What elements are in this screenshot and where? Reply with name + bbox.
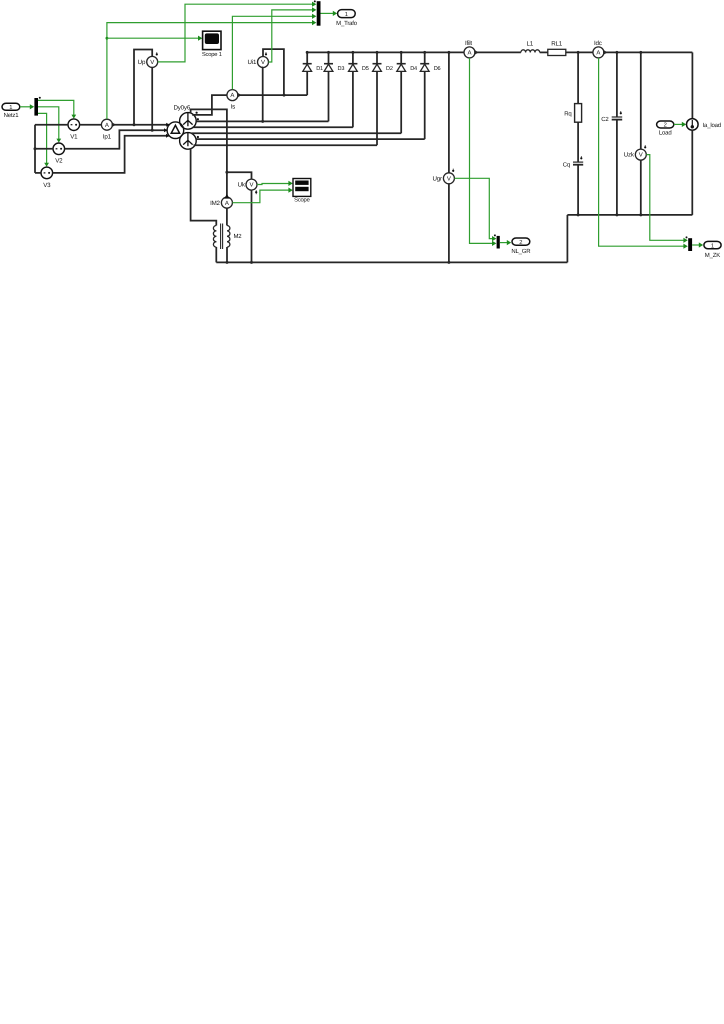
junction Up- on phase 2 [151, 129, 154, 132]
polarity dot secondary d [197, 136, 199, 138]
junction Ugr tap on bus [447, 51, 450, 54]
wire Idc to load corner [604, 51, 693, 53]
svg-text:RL1: RL1 [551, 41, 563, 48]
svg-text:1: 1 [345, 12, 348, 18]
wire Ui1- to secondary line b [262, 68, 264, 122]
junction Uk+ tap [225, 171, 228, 174]
arrowhead into Scope 1 [198, 36, 202, 41]
voltage source V3 [41, 167, 53, 189]
junction Ugr on neutral rail [447, 261, 450, 264]
svg-text:Ui1: Ui1 [248, 59, 257, 66]
diode D1 [303, 52, 323, 95]
arrowhead into V3 [44, 163, 49, 167]
svg-text:Ia_load: Ia_load [703, 122, 721, 129]
junction neutral-V2 [34, 147, 37, 150]
wire V3 left to neutral [35, 172, 41, 174]
wire bus to Uzk [640, 52, 642, 149]
signal wire mux to M_ZK [692, 244, 700, 246]
wire M2 right winding to rail [226, 247, 228, 262]
svg-text:Ugr: Ugr [433, 175, 443, 182]
svg-text:V: V [249, 182, 253, 189]
arrow at Ifilt output [474, 50, 478, 55]
arrow at Ip1 output [112, 122, 116, 127]
wire Rq to Cq [577, 122, 579, 162]
voltmeter Ui1 [248, 57, 269, 68]
transformer M2 right winding [227, 226, 242, 248]
arrowhead into V1 [71, 115, 76, 119]
wire RL1 to Idc [566, 51, 593, 53]
svg-text:Rq: Rq [564, 110, 571, 117]
polarity mark Uzk [644, 145, 646, 148]
svg-text:Uk: Uk [238, 182, 246, 189]
svg-text:Dy0y6: Dy0y6 [174, 105, 191, 112]
transformer M2 core [221, 224, 223, 250]
svg-text:Up: Up [138, 59, 146, 66]
svg-text:Scope: Scope [294, 197, 309, 204]
wire V1 to Ip1 (phase 1) [80, 124, 102, 126]
svg-text:Uzk: Uzk [624, 152, 635, 159]
wire V3 to delta (phase 3) [53, 136, 170, 173]
wire secondary line c1 to D4 [192, 132, 402, 134]
junction Cq on rail [577, 213, 580, 216]
wire bus to Rq [577, 52, 579, 103]
svg-text:D5: D5 [362, 66, 369, 72]
ammeter Ifilt [464, 40, 475, 58]
arrowhead Up into mux [312, 2, 316, 7]
junction C2 tap on bus [615, 51, 618, 54]
svg-text:V: V [639, 152, 643, 159]
voltmeter Up [138, 56, 158, 67]
wire neutral rail [216, 261, 567, 263]
mux bar M_Trafo [314, 0, 321, 25]
junction Uk- on rail [250, 261, 253, 264]
junction Uzk tap on bus [639, 51, 642, 54]
capacitor Cq [563, 161, 583, 168]
junction Ip1 signal to Scope 1 [106, 37, 109, 40]
voltmeter Uzk [624, 149, 647, 160]
svg-text:D3: D3 [338, 66, 345, 72]
arrowhead into M_ZK [699, 242, 703, 247]
ammeter Is [227, 90, 238, 111]
arrowhead into Ia_load [682, 122, 686, 127]
signal wire Ugr to NL_GR mux [454, 178, 493, 238]
junction Uzk on rail [639, 213, 642, 216]
arrowhead into demux [30, 104, 34, 109]
wire DC- rail to neutral rail [566, 215, 568, 263]
junction D2 top [376, 51, 379, 54]
signal wire Ifilt to NL_GR mux [470, 58, 494, 243]
wire Netz1 to demux [20, 106, 32, 108]
arrowhead into V2 [56, 139, 61, 143]
signal wire demux to V2 [38, 107, 59, 141]
current source Ia_load [687, 119, 721, 131]
signal wire Ip1 to mux [107, 23, 314, 119]
svg-text:V: V [261, 59, 265, 66]
svg-text:1: 1 [9, 105, 12, 111]
wire bus corner to Ia_load [691, 52, 693, 118]
resistor RL1 [548, 41, 566, 56]
neutral wire joining sources [34, 125, 36, 173]
svg-text:V3: V3 [43, 182, 51, 189]
svg-text:V1: V1 [70, 134, 78, 141]
signal wire Load to Ia_load [674, 123, 684, 125]
svg-text:M_Trafo: M_Trafo [336, 20, 358, 27]
junction C2 on rail [615, 213, 618, 216]
input port Load [657, 121, 674, 137]
diode D3 [324, 52, 344, 121]
transformer delta winding [167, 122, 184, 139]
svg-text:V: V [150, 59, 154, 66]
signal wire demux to V1 [38, 100, 74, 116]
wire Uk+ branch [227, 172, 252, 179]
svg-text:V2: V2 [55, 158, 63, 165]
ammeter IM2 [210, 197, 232, 208]
wire Ui1+ to Is output line [263, 49, 284, 95]
mux bar NL_GR [494, 234, 500, 248]
polarity dot secondary a [196, 112, 198, 114]
svg-text:2: 2 [664, 122, 667, 129]
svg-text:Cq: Cq [563, 161, 570, 168]
ammeter Ip1 [101, 119, 112, 140]
wire DC- rail [567, 214, 692, 216]
wire secondary line b1 to D5 [193, 126, 353, 128]
wire Cq to DC- rail [577, 165, 579, 215]
junction Rq tap on bus [577, 51, 580, 54]
svg-text:L1: L1 [527, 41, 534, 48]
demux bar (3-phase split) [34, 97, 40, 116]
wire Up+ terminal to phase 1 [134, 50, 152, 125]
signal wire Uzk to M_ZK mux [646, 155, 685, 241]
signal wire Is to mux [232, 16, 313, 89]
svg-text:1: 1 [711, 243, 714, 249]
arrowhead Uk into Scope [288, 181, 292, 186]
svg-text:A: A [596, 50, 600, 57]
polarity mark Ui1 [265, 52, 267, 55]
svg-text:A: A [230, 92, 234, 99]
arrowhead Ip1 into mux [312, 20, 316, 25]
wire bus to Ugr [448, 52, 450, 172]
voltage source V2 [53, 143, 65, 165]
arrow into delta phase1 [166, 123, 169, 127]
resistor Rq [564, 104, 581, 123]
signal wire mux to NL_GR [500, 242, 509, 244]
wire L1 to RL1 [540, 51, 548, 53]
output port M_ZK [704, 241, 721, 259]
transformer wye winding top (y0) [180, 113, 197, 130]
polarity mark Uk [255, 190, 257, 194]
arrowhead into M_Trafo [333, 11, 337, 16]
signal wire IM2 to Scope [232, 190, 290, 203]
svg-text:NL_GR: NL_GR [511, 248, 531, 255]
arrowhead Ifilt into mux [492, 241, 496, 246]
arrowhead Uzk into mux [683, 238, 687, 243]
junction D6 top [423, 51, 426, 54]
arrow into delta phase2 [164, 128, 167, 132]
arrowhead Ui1 into mux [312, 7, 316, 12]
transformer M2 left winding [213, 226, 216, 248]
diode D6 [420, 52, 440, 139]
junction Up+ on phase 1 [133, 123, 136, 126]
wire secondary line c3 to D2 [194, 144, 378, 146]
arrow into delta phase3 [166, 134, 169, 138]
input port Netz1 [2, 103, 20, 119]
diode D5 [348, 52, 368, 127]
svg-text:C2: C2 [601, 116, 609, 123]
wire bus to C2 [616, 52, 618, 116]
junction Ui1+ on Is line [283, 94, 286, 97]
wire Ifilt to L1 [475, 51, 521, 53]
svg-text:Scope 1: Scope 1 [202, 51, 222, 58]
transformer wye winding bottom (y6) [180, 133, 197, 150]
output port M_Trafo [336, 10, 358, 27]
arrow IM2 direction up [224, 194, 229, 199]
wire IM2 to M2 winding [226, 208, 228, 225]
arrowhead Idc into mux [683, 244, 687, 249]
junction Ui1- on line b [261, 120, 264, 123]
arrowhead into NL_GR [507, 240, 511, 245]
wire secondary line a1 to D3 [196, 120, 328, 122]
arrow at Idc output [603, 50, 607, 55]
polarity mark Cq [580, 156, 582, 159]
svg-text:A: A [105, 122, 109, 129]
wire C2 to DC- rail [616, 120, 618, 215]
polarity dot secondary b [197, 118, 199, 120]
svg-text:D2: D2 [386, 66, 393, 72]
signal wire Idc to M_ZK mux [599, 58, 685, 246]
wire V1 left to neutral [35, 124, 68, 126]
signal wire Up to mux [158, 4, 314, 62]
diode D4 [397, 52, 417, 133]
voltage source V1 [68, 119, 80, 141]
svg-text:M2: M2 [234, 233, 243, 240]
signal wire Ui1 to mux [269, 10, 314, 62]
voltmeter Ugr [433, 173, 455, 184]
wire Uzk to DC- rail [640, 160, 642, 215]
wire V2 to delta (phase 2) [65, 130, 168, 149]
svg-text:M_ZK: M_ZK [705, 252, 720, 259]
svg-text:IM2: IM2 [210, 200, 220, 207]
arrowhead Ugr into mux [492, 236, 496, 241]
svg-text:2: 2 [519, 239, 522, 246]
wire wye-bottom neutral to M2 [191, 148, 217, 226]
ammeter Idc [593, 40, 604, 58]
wire M2 left winding to rail [215, 247, 217, 262]
wire DC+ bus [307, 51, 464, 53]
diode D2 [373, 52, 393, 145]
wire secondary line c2 to D6 [196, 138, 425, 140]
junction D3 top [327, 51, 330, 54]
signal wire demux to V3 [38, 113, 47, 164]
wire Uk- to neutral rail [251, 190, 253, 262]
voltmeter Uk [238, 179, 257, 190]
wire Ip1 to transformer delta (phase 1) [112, 124, 169, 126]
junction D1 top [306, 51, 309, 54]
svg-text:Load: Load [659, 130, 672, 137]
transformer label Dy0y6 [174, 105, 191, 112]
mux bar M_ZK [686, 236, 693, 251]
svg-text:A: A [467, 50, 471, 57]
output port NL_GR [511, 238, 531, 255]
scope block Scope 1 [202, 31, 222, 58]
wire Ia_load to DC- rail [691, 130, 693, 215]
svg-text:D1: D1 [316, 66, 323, 72]
wire V2 left to neutral [35, 148, 53, 150]
svg-text:A: A [225, 200, 229, 207]
wire Ugr to neutral rail [448, 184, 450, 263]
svg-text:V: V [447, 175, 451, 182]
polarity mark C2 [620, 111, 622, 114]
inductor L1 [521, 41, 540, 53]
capacitor C2 [601, 116, 622, 123]
wire wye-a to Is [192, 95, 227, 115]
signal wire Uk to Scope [257, 184, 290, 185]
wire Up- terminal to phase 2 [151, 67, 153, 130]
arrowhead Is into mux [312, 14, 316, 19]
junction D4 top [400, 51, 403, 54]
wire wye-top neutral to IM2 [191, 109, 227, 197]
svg-text:D4: D4 [410, 66, 417, 72]
svg-text:Is: Is [231, 103, 236, 110]
signal wire mux to M_Trafo [321, 12, 335, 14]
svg-text:Ip1: Ip1 [103, 133, 112, 140]
svg-text:Netz1: Netz1 [4, 112, 20, 119]
polarity mark Up [156, 52, 158, 55]
arrow at Is output [237, 93, 241, 98]
svg-text:Ifilt: Ifilt [465, 40, 472, 47]
polarity mark Ugr [452, 169, 454, 172]
svg-text:D6: D6 [434, 66, 441, 72]
signal wire to Scope 1 [107, 37, 200, 39]
scope block Scope [293, 179, 311, 204]
junction M2 right on rail [226, 261, 229, 264]
svg-text:Idc: Idc [594, 40, 602, 47]
arrowhead IM2 into Scope [288, 188, 292, 193]
wire Is to diode D1 anode [238, 94, 307, 96]
junction D5 top [351, 51, 354, 54]
